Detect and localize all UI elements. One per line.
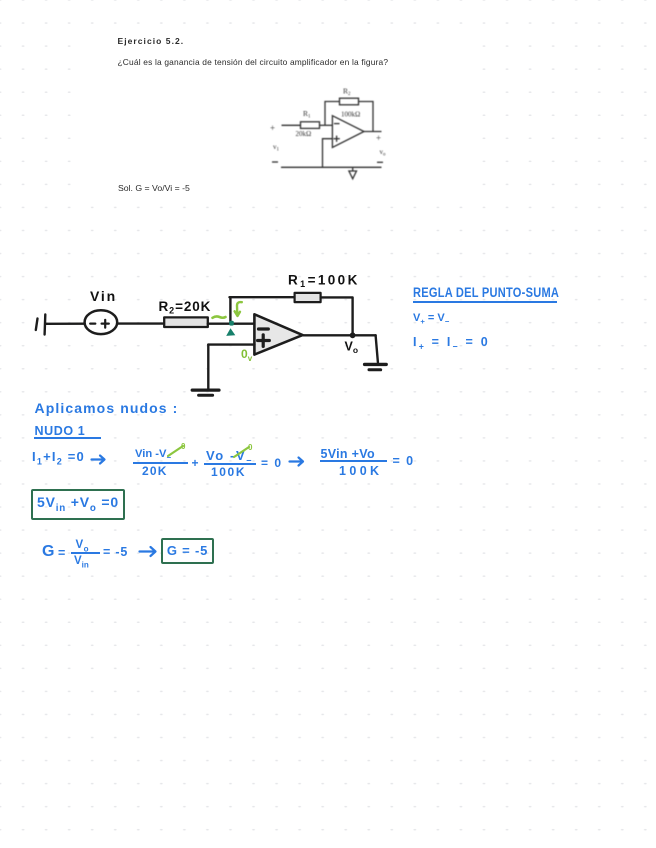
blue note: I+ = I- = 0 (413, 335, 490, 352)
fraction 1: (Vin-V-)/20K (135, 448, 171, 462)
green annotation dash on wire (213, 316, 226, 317)
printed question (118, 57, 389, 67)
plus between fractions (192, 456, 199, 470)
resistor R1 (295, 293, 321, 302)
voltage source Vin (85, 310, 118, 334)
wire source to R2 (117, 322, 164, 324)
wire feedback vertical left (229, 297, 231, 322)
source minus sign (90, 323, 95, 325)
blue: Aplicamos nudos (35, 400, 179, 416)
wire terminal to source (46, 323, 86, 325)
blue note: V+ = V- (413, 312, 449, 326)
green hook annotation at node (235, 302, 242, 316)
equation line 1: I1+I2=0 (32, 449, 85, 467)
node output minus (377, 161, 383, 163)
resistor R2 100k (340, 98, 359, 105)
arrow 3 (138, 545, 162, 559)
wire output to ground (376, 335, 378, 362)
inverting input dash (334, 123, 340, 125)
green box G=-5 (161, 538, 214, 564)
wire R2 to op-amp (208, 323, 254, 325)
svg-text:Vin: Vin (90, 288, 117, 304)
label R1 (303, 109, 311, 120)
resistor R1 20k (301, 122, 320, 129)
svg-text:R2=20K: R2=20K (159, 299, 212, 316)
node vo label (380, 148, 387, 158)
wire bottom rail (281, 166, 382, 168)
wire output (364, 131, 382, 133)
op-amp minus marker (259, 327, 269, 330)
wire input (282, 124, 301, 126)
blue: NUDO 1 (35, 424, 86, 438)
node vi label (273, 143, 280, 153)
svg-text:R1=100K: R1=100K (288, 273, 360, 290)
wire plus input (208, 343, 254, 345)
blue note: REGLA DEL PUNTO-SUMA (413, 285, 559, 300)
input terminal ticks (36, 319, 38, 331)
=0 after fraction 3 (393, 454, 415, 468)
teal node 1 dot (229, 321, 234, 326)
wire feedback up (325, 102, 340, 126)
ground symbol printed (352, 167, 354, 171)
arrow (90, 453, 110, 467)
wire plus input down (207, 345, 209, 389)
=0 (261, 456, 283, 470)
green box 5Vin+Vo=0 (31, 489, 125, 520)
wire to op-amp (320, 124, 333, 126)
printed solution line (118, 183, 190, 193)
value 20k (296, 130, 312, 138)
label R2 (343, 87, 351, 98)
source plus sign (102, 323, 109, 325)
ground left (192, 389, 219, 392)
op-amp triangle (254, 314, 302, 354)
arrow 2 (288, 455, 308, 469)
printed exercise title (118, 36, 185, 46)
wire output (303, 334, 376, 336)
green strike 1 (167, 444, 187, 458)
ground right (365, 363, 387, 366)
underline (413, 301, 558, 303)
fraction 3: (5Vin+Vo)/100K (321, 447, 375, 461)
G equation (42, 543, 54, 561)
wire feedback top (230, 296, 295, 298)
plus input marker (334, 138, 340, 140)
node plus input terminal label (270, 123, 275, 133)
wire feedback right (359, 102, 374, 132)
label Vin handwritten (90, 273, 360, 356)
fraction 2: (Vo-V-)/100K (206, 448, 253, 466)
svg-text:0v: 0v (241, 347, 253, 363)
node minus input terminal (272, 161, 278, 163)
green strike 2 (233, 445, 253, 459)
resistor R2 (164, 317, 208, 327)
junction node dot (350, 332, 356, 338)
node output plus (376, 133, 381, 143)
value 100k (341, 111, 360, 119)
wire plus input to rail (323, 139, 333, 168)
fraction Vo/Vin (76, 539, 90, 553)
op-amp U1 (332, 116, 364, 148)
wire feedback to output (321, 297, 353, 335)
teal node arrow (226, 328, 235, 336)
op-amp plus marker (258, 339, 270, 342)
svg-text:Vo: Vo (345, 340, 359, 356)
